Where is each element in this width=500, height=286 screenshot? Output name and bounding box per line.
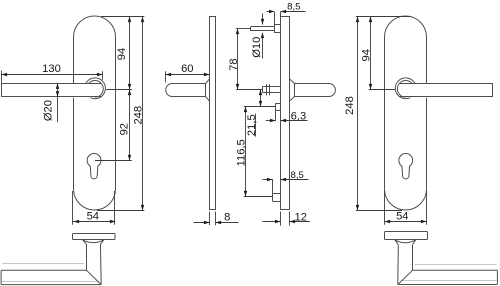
dim 8,5 lower [272, 180, 274, 194]
svg-text:130: 130 [42, 63, 61, 75]
3d-right rose disc [385, 232, 428, 240]
svg-text:60: 60 [181, 63, 193, 75]
dim 130 [1, 71, 3, 83]
dim 6,3 [275, 111, 277, 122]
dim 12 [280, 212, 282, 226]
svg-text:92: 92 [119, 123, 131, 135]
view3 top fixing screw shaft [251, 26, 274, 28]
dim 248 view1 [97, 210, 144, 212]
view3 cylinder boss [275, 103, 277, 110]
svg-text:94: 94 [361, 49, 373, 61]
3d-left rose disc [73, 234, 116, 240]
svg-text:54: 54 [396, 211, 408, 223]
svg-text:116,5: 116,5 [235, 139, 247, 166]
view3 backplate edge (12mm) [281, 17, 290, 210]
3d-right mitre edge [398, 270, 413, 284]
dim 8 [209, 212, 211, 226]
dim 78 [236, 28, 251, 30]
view1 rose outer circle [85, 78, 106, 99]
view1 rose neck circle [87, 81, 104, 98]
dim 94 view1 [101, 16, 144, 18]
svg-text:248: 248 [344, 96, 356, 115]
view4 lever bar [406, 83, 493, 97]
dim 248 view4 [356, 210, 402, 212]
view4 backplate (front view, right) [385, 16, 427, 210]
dim 94 view4 [356, 16, 411, 18]
svg-text:8,5: 8,5 [287, 2, 300, 13]
svg-text:94: 94 [116, 48, 128, 60]
svg-text:21,5: 21,5 [246, 114, 258, 136]
svg-text:248: 248 [133, 106, 145, 125]
3d-left mitre edge [87, 270, 102, 284]
view4 euro profile keyhole [399, 154, 413, 179]
view2 lever grip side [166, 84, 206, 97]
svg-text:Ø20: Ø20 [43, 100, 55, 121]
view4 rose neck circle [397, 81, 414, 98]
dim diameter 20 [57, 83, 59, 122]
3d-left neck [86, 244, 88, 270]
svg-text:8,5: 8,5 [291, 170, 304, 181]
view1 backplate (front view, left) [74, 16, 116, 210]
svg-text:Ø10: Ø10 [251, 37, 263, 58]
svg-text:8: 8 [224, 212, 230, 224]
dim 116,5 [245, 107, 247, 197]
dim 54 view1 [72, 191, 74, 225]
view2 backplate edge (8mm) [210, 17, 216, 210]
view3 top screw flange O10 [274, 25, 276, 33]
view3 lever grip side [295, 84, 336, 97]
dim 21,5 [260, 90, 262, 107]
dim 60 [165, 71, 167, 82]
dim 92 [95, 160, 132, 162]
view3 spindle nut [266, 84, 268, 95]
3d-left neck cone [83, 240, 104, 243]
svg-text:6,3: 6,3 [291, 110, 307, 122]
view1 lever bar [1, 83, 95, 97]
dim 54 view4 [384, 191, 386, 225]
view3 spindle bolt [262, 86, 280, 88]
dim diameter 10 [262, 13, 264, 24]
3d-right neck cone [395, 240, 416, 243]
svg-text:12: 12 [294, 212, 306, 224]
svg-text:78: 78 [228, 58, 240, 70]
view2 lever neck flare [206, 79, 210, 84]
view4 rose outer circle [395, 78, 416, 99]
3d-right grip bar [415, 264, 497, 266]
3d-right neck [412, 245, 414, 271]
view3 lower screw boss [272, 193, 274, 201]
view3 lever neck flare [290, 79, 295, 84]
3d-left grip bar [2, 263, 84, 265]
dim 8,5 top [274, 12, 276, 25]
svg-text:54: 54 [87, 211, 99, 223]
view1 euro profile keyhole [87, 154, 101, 179]
